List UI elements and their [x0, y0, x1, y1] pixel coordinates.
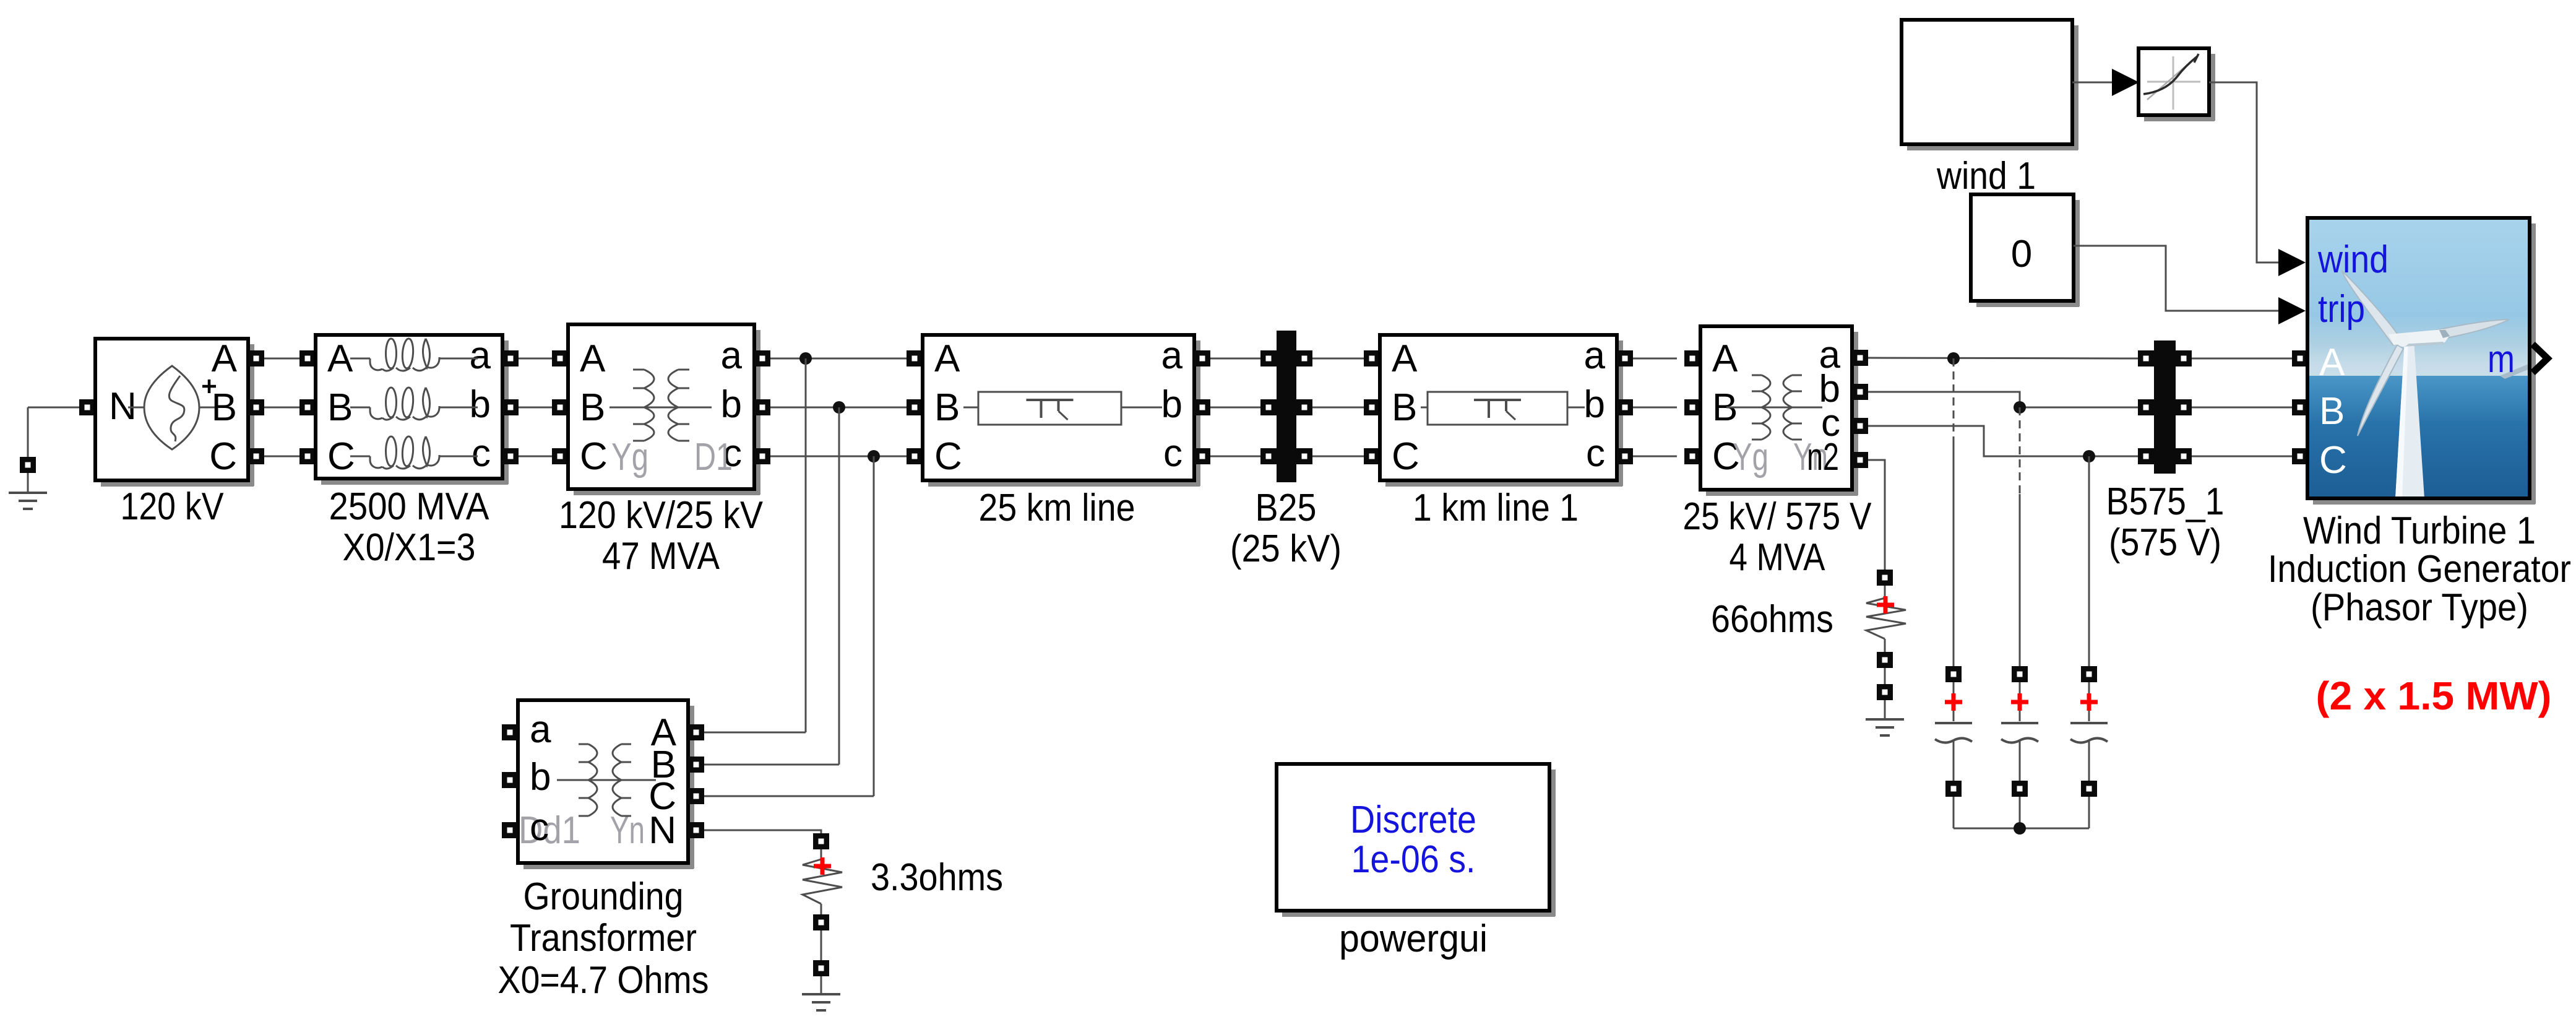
svg-text:2500 MVA: 2500 MVA — [329, 485, 490, 528]
svg-text:X0=4.7 Ohms: X0=4.7 Ohms — [498, 959, 709, 1002]
svg-text:Yg: Yg — [1733, 436, 1768, 479]
svg-text:0: 0 — [2011, 233, 2032, 275]
svg-text:a: a — [721, 334, 743, 377]
svg-text:Wind Turbine 1: Wind Turbine 1 — [2303, 509, 2536, 552]
svg-text:Induction Generator: Induction Generator — [2268, 548, 2571, 591]
svg-text:Yg: Yg — [611, 436, 648, 479]
svg-text:b: b — [530, 756, 551, 799]
svg-text:B: B — [212, 386, 237, 429]
svg-text:25 km line: 25 km line — [979, 487, 1135, 529]
svg-text:C: C — [209, 435, 237, 478]
svg-text:B: B — [580, 386, 605, 429]
svg-text:a: a — [1161, 334, 1183, 377]
svg-text:c: c — [530, 806, 549, 849]
svg-text:b: b — [1584, 383, 1605, 426]
svg-text:C: C — [2319, 439, 2347, 482]
svg-text:X0/X1=3: X0/X1=3 — [343, 526, 476, 569]
svg-text:(Phasor Type): (Phasor Type) — [2311, 586, 2528, 629]
svg-text:A: A — [1392, 337, 1418, 380]
svg-text:1 km line 1: 1 km line 1 — [1413, 487, 1579, 529]
svg-text:a: a — [470, 334, 491, 377]
svg-text:A: A — [2319, 341, 2345, 384]
svg-text:a: a — [1584, 334, 1606, 377]
svg-text:Discrete: Discrete — [1350, 799, 1476, 841]
svg-text:wind 1: wind 1 — [1936, 155, 2036, 197]
svg-text:a: a — [530, 708, 551, 751]
svg-text:(2 x 1.5 MW): (2 x 1.5 MW) — [2316, 674, 2552, 718]
svg-text:B: B — [1392, 386, 1417, 429]
svg-text:66ohms: 66ohms — [1711, 598, 1833, 641]
svg-text:25 kV/ 575 V: 25 kV/ 575 V — [1683, 495, 1872, 538]
svg-text:(25 kV): (25 kV) — [1230, 527, 1342, 570]
svg-text:47 MVA: 47 MVA — [602, 535, 720, 578]
svg-text:C: C — [1392, 435, 1419, 478]
svg-text:b: b — [721, 383, 742, 426]
svg-text:C: C — [934, 435, 962, 478]
svg-text:c: c — [472, 432, 491, 475]
svg-text:120 kV/25 kV: 120 kV/25 kV — [559, 494, 764, 537]
svg-text:N: N — [648, 809, 676, 852]
svg-text:120 kV: 120 kV — [121, 485, 225, 528]
svg-text:D1: D1 — [694, 436, 733, 479]
svg-text:C: C — [580, 435, 608, 478]
svg-text:4 MVA: 4 MVA — [1730, 536, 1826, 579]
svg-text:B: B — [934, 386, 960, 429]
svg-text:Dd1: Dd1 — [519, 809, 580, 852]
svg-text:A: A — [580, 337, 606, 380]
svg-text:(575 V): (575 V) — [2109, 521, 2221, 564]
svg-text:trip: trip — [2318, 288, 2365, 331]
svg-text:Grounding: Grounding — [523, 875, 684, 918]
svg-text:b: b — [470, 383, 491, 426]
svg-text:A: A — [934, 337, 960, 380]
svg-text:A: A — [1712, 337, 1738, 380]
svg-text:Transformer: Transformer — [510, 917, 697, 960]
svg-text:n2: n2 — [1807, 436, 1839, 479]
svg-text:B575_1: B575_1 — [2106, 480, 2225, 523]
svg-text:wind: wind — [2317, 238, 2389, 281]
svg-text:B: B — [2319, 390, 2345, 433]
svg-text:B25: B25 — [1256, 487, 1317, 529]
svg-text:b: b — [1161, 383, 1182, 426]
svg-text:3.3ohms: 3.3ohms — [871, 856, 1003, 899]
svg-text:c: c — [1163, 432, 1182, 475]
svg-text:B: B — [327, 386, 353, 429]
svg-text:c: c — [1586, 432, 1605, 475]
svg-text:m: m — [2488, 338, 2515, 381]
svg-text:A: A — [212, 337, 238, 380]
svg-text:1e-06 s.: 1e-06 s. — [1351, 838, 1476, 881]
svg-text:powergui: powergui — [1339, 917, 1488, 960]
svg-text:A: A — [327, 337, 353, 380]
